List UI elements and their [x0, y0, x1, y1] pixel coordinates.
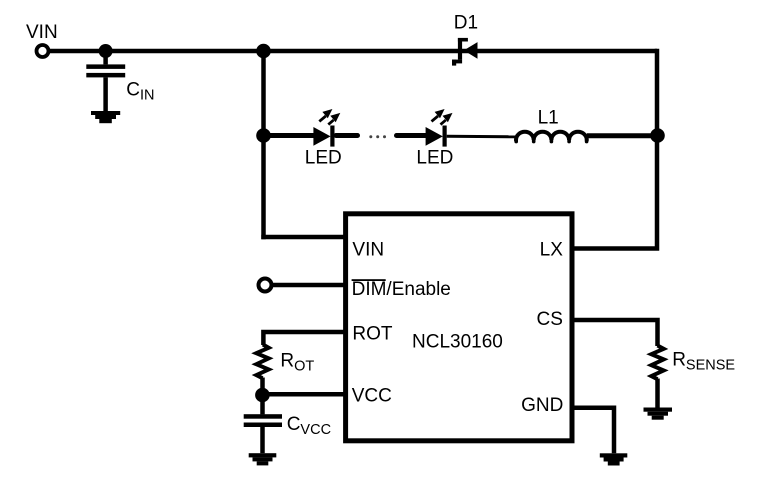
inductor L1: [516, 132, 587, 140]
wire into VIN pin: [261, 235, 346, 240]
wire top rail: [49, 49, 657, 54]
svg-text:LED: LED: [305, 148, 342, 169]
wire LED row segment 2: [397, 133, 427, 138]
wire CIN lead bottom: [103, 77, 108, 111]
svg-text:DIM/Enable: DIM/Enable: [352, 279, 451, 300]
LED 1: [313, 109, 340, 147]
terminal VIN (input port): [37, 45, 49, 57]
wire ROT to VCC node: [260, 378, 265, 397]
ground (CIN): [91, 111, 120, 123]
node LED branch junction: [256, 128, 271, 143]
svg-text:VIN: VIN: [26, 22, 58, 43]
ground (GND): [600, 453, 628, 465]
svg-text:CVCC: CVCC: [287, 414, 331, 438]
svg-text:RSENSE: RSENSE: [672, 350, 735, 374]
wire ROT pin: [263, 332, 346, 345]
svg-text:LED: LED: [416, 148, 453, 169]
wire LED2 to L1 (thin): [447, 135, 517, 139]
wire CVCC lead bottom: [260, 427, 265, 453]
svg-text:ROT: ROT: [352, 324, 393, 345]
wire CS pin: [572, 320, 658, 346]
node junction at CIN: [99, 44, 113, 58]
svg-text:LX: LX: [540, 239, 564, 260]
svg-text:L1: L1: [538, 108, 559, 129]
diode D1 (Schottky): [452, 38, 478, 66]
wire LED row segment 1: [264, 133, 315, 138]
wire RSENSE to ground: [655, 379, 660, 408]
svg-text:VIN: VIN: [352, 239, 384, 260]
svg-text:CIN: CIN: [126, 80, 154, 104]
wire VCC pin: [263, 392, 347, 397]
wire DIM pin: [272, 283, 347, 288]
LED 2: [426, 109, 453, 147]
wire L1 to right rail: [587, 133, 657, 138]
ground (RSENSE): [644, 408, 673, 420]
wire CIN lead top: [103, 51, 108, 64]
IC U1 NCL30160: [346, 214, 572, 441]
svg-text:D1: D1: [454, 13, 478, 34]
resistor ROT: [256, 345, 268, 379]
ellipsis node dots: [369, 135, 386, 138]
ground (CVCC): [249, 453, 277, 465]
svg-text:VCC: VCC: [352, 386, 392, 407]
wire left branch vertical: [261, 51, 266, 239]
wire CVCC lead top: [260, 395, 265, 414]
svg-text:ROT: ROT: [280, 350, 314, 374]
node right rail junction: [650, 128, 665, 143]
svg-text:GND: GND: [521, 395, 563, 416]
node VCC junction: [255, 388, 270, 403]
resistor RSENSE: [651, 346, 663, 380]
svg-text:NCL30160: NCL30160: [412, 332, 503, 353]
wire right rail vertical + LX pin: [572, 49, 657, 249]
wire LED row stub: [336, 133, 358, 138]
capacitor CIN: [86, 64, 125, 77]
node top-left junction: [256, 44, 271, 59]
terminal DIM/Enable: [259, 279, 272, 292]
wire GND pin: [572, 408, 614, 454]
svg-text:CS: CS: [536, 309, 562, 330]
capacitor CVCC: [244, 414, 282, 427]
